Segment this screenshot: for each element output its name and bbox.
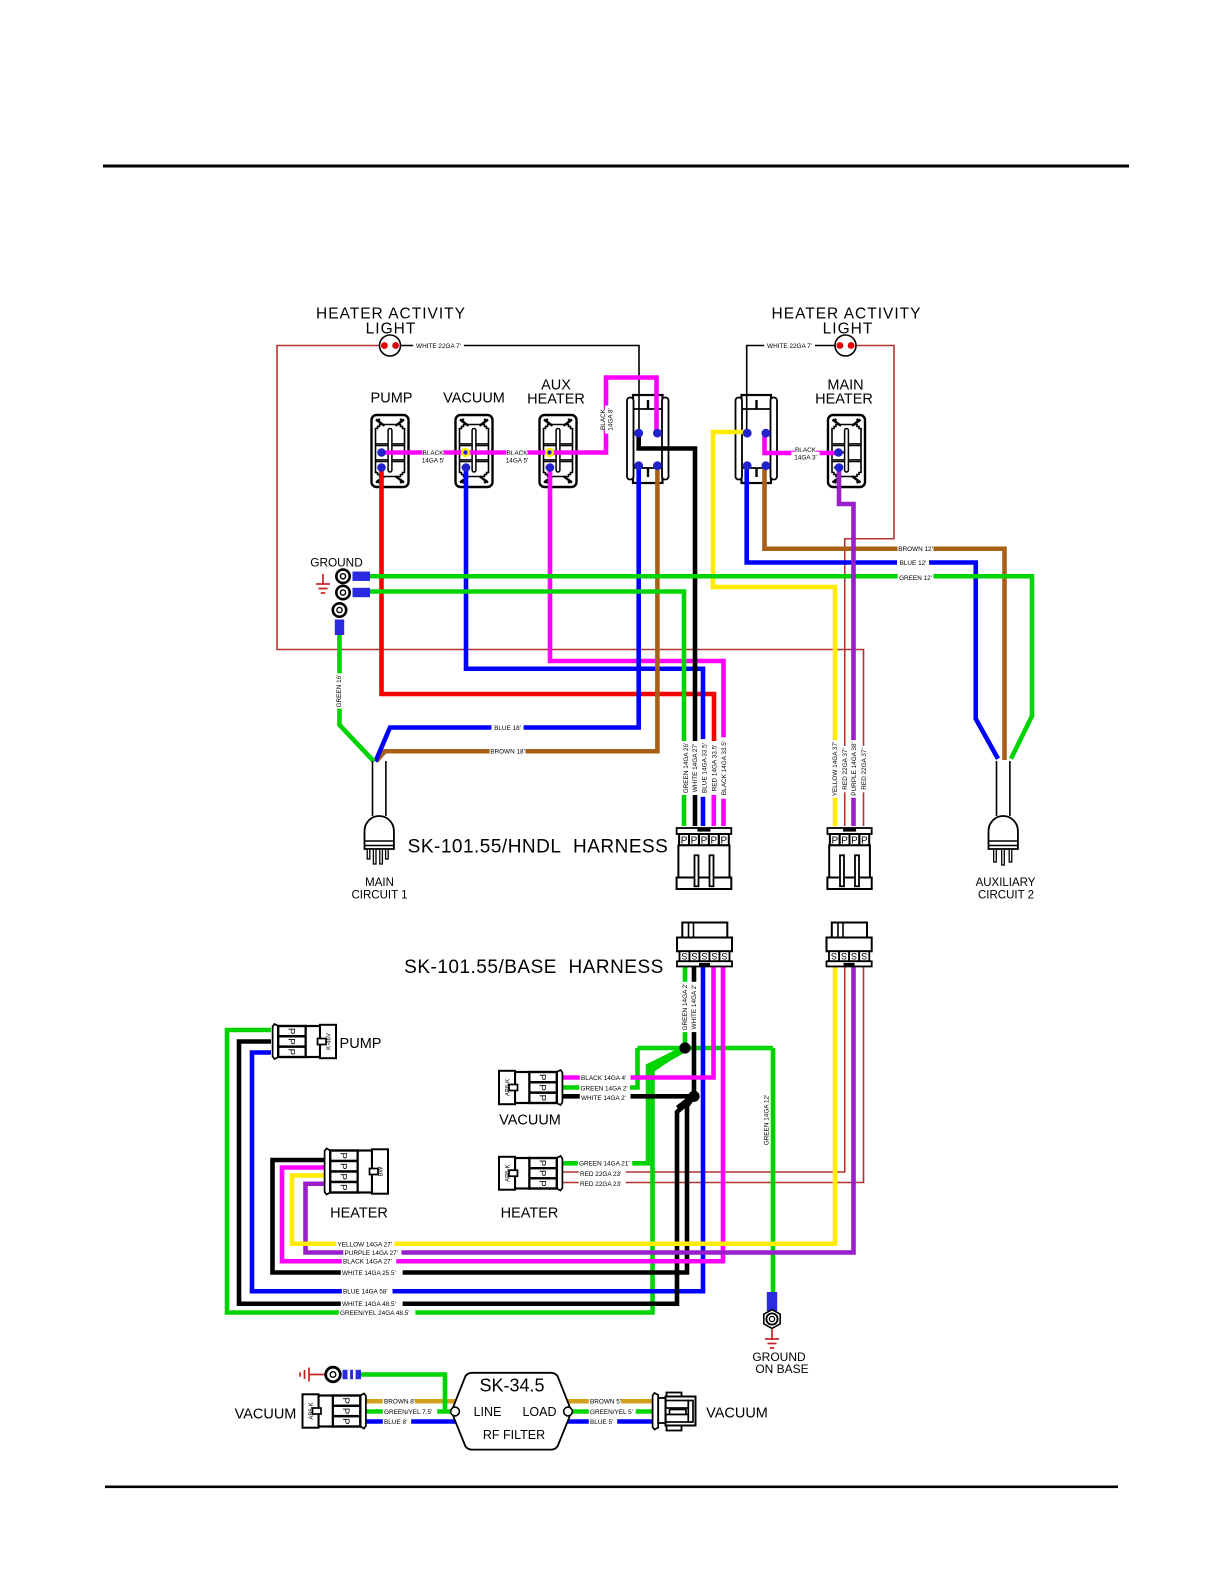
svg-text:P: P [286, 1049, 297, 1055]
label RED 22GA 23' second [579, 1179, 626, 1189]
svg-text:P: P [537, 1084, 548, 1090]
wire BLACK 14GA 33.5' AUX HEATER switch to P-connector 1 pin 5 [550, 468, 724, 827]
svg-text:P: P [537, 1095, 548, 1101]
wire BLUE 18' connector A to MAIN CIRCUIT 1 plug [376, 466, 639, 762]
rocker switch PUMP [372, 415, 409, 487]
wire PURPLE 14GA 38' MAIN HEATER switch to P-connector 2 pin 3 [839, 468, 854, 827]
svg-text:BROWN 18': BROWN 18' [490, 749, 525, 756]
svg-text:S: S [681, 951, 687, 961]
label RED 14GA 33.5' (rotated) [709, 741, 718, 795]
svg-text:GREEN 14GA 26': GREEN 14GA 26' [683, 743, 690, 794]
4-pin connector A (handle 4-pin) [627, 395, 669, 483]
svg-text:RED 22GA 23': RED 22GA 23' [580, 1171, 621, 1178]
RF filter SK-34.5 [453, 1373, 571, 1450]
svg-text:LOAD: LOAD [522, 1405, 556, 1419]
svg-text:GREEN 14GA 12': GREEN 14GA 12' [763, 1095, 770, 1146]
svg-text:P: P [338, 1184, 349, 1190]
svg-text:VACUUM: VACUUM [706, 1406, 768, 1422]
svg-text:LIGHT: LIGHT [366, 321, 417, 338]
wire RED 22GA 23' from S-connector 2 pin 2 to HEATER connector [561, 967, 845, 1173]
pins PUMP switch [377, 448, 386, 457]
label PURPLE 14GA 27' [343, 1247, 401, 1257]
svg-text:BROWN 12': BROWN 12' [898, 546, 933, 553]
rocker switch VACUUM [456, 415, 493, 487]
label GREEN 14GA 2' (rotated) [680, 982, 689, 1032]
bottom rule [105, 1486, 1118, 1489]
svg-text:ON BASE: ON BASE [755, 1362, 808, 1376]
svg-text:AB6-K: AB6-K [506, 1165, 512, 1182]
label BLUE 14GA 58' [342, 1286, 393, 1296]
label BLACK 14GA 27' [342, 1256, 396, 1266]
wire GREEN/YEL 5' RF filter to VACUUM connector [571, 1409, 653, 1414]
wire RED 22GA from right heater activity light to P-connector 2 pin 2 [845, 346, 894, 827]
svg-text:BLUE 12': BLUE 12' [900, 560, 927, 567]
wire GREEN/YEL 24GA 48.5' junction to PUMP connector [227, 1030, 685, 1313]
label BLACK 14GA 33.5' (rotated) [719, 737, 728, 798]
svg-text:GREEN 12': GREEN 12' [899, 575, 932, 582]
wire BROWN 5' RF filter to VACUUM connector [541, 1399, 653, 1404]
svg-text:PURPLE 14GA 27': PURPLE 14GA 27' [345, 1250, 398, 1257]
wire BLUE 14GA 58' S-connector 1 pin 3 to PUMP connector [252, 967, 703, 1292]
label GREEN 14GA 12' (rotated) [763, 1095, 770, 1146]
wire GREEN 14GA 26' ground ring 2 to P-connector 1 pin 1 [370, 592, 684, 827]
label BLACK 14GA 8' (rotated) [598, 408, 607, 430]
wire stub magenta into P-connector 1 pin 4 [711, 788, 716, 826]
label WHITE 14GA 48.5' [341, 1299, 403, 1309]
label YELLOW 14GA 37' (rotated) [830, 740, 839, 798]
svg-text:PUMP: PUMP [340, 1036, 382, 1052]
svg-text:14GA 8': 14GA 8' [607, 408, 614, 431]
svg-text:VACUUM: VACUUM [499, 1113, 561, 1129]
wire RED 22GA 23' from S-connector 2 pin 4 to HEATER connector [561, 967, 864, 1183]
wire BLUE 5' RF filter to VACUUM connector [562, 1419, 653, 1424]
svg-text:WHITE 22GA 7': WHITE 22GA 7' [767, 343, 812, 350]
label WHITE 14GA 2' [580, 1092, 631, 1102]
svg-text:BLUE 14GA 33.5': BLUE 14GA 33.5' [701, 743, 708, 793]
wire GREEN 14GA 2' stub from S-connector 1 pin 1 to junction [683, 967, 688, 1049]
wire WHITE 14GA 25.5' junction to HEATER connector [273, 1096, 695, 1272]
ring terminal ground 1 [336, 570, 370, 583]
svg-text:RF FILTER: RF FILTER [483, 1428, 545, 1442]
svg-text:WHITE 14GA 25.5': WHITE 14GA 25.5' [342, 1270, 396, 1277]
plug AUXILIARY CIRCUIT 2 [989, 761, 1018, 865]
top rule [103, 165, 1129, 168]
svg-text:BROWN 8': BROWN 8' [384, 1399, 415, 1406]
svg-text:WHITE 14GA 2': WHITE 14GA 2' [691, 985, 698, 1030]
wire RED 14GA 33.5' PUMP switch down to P-connector 1 pin 4 [382, 468, 715, 789]
label WHITE 22GA 7' left [413, 340, 464, 350]
svg-text:SK-34.5: SK-34.5 [479, 1376, 544, 1396]
indicator lamp left HEATER ACTIVITY LIGHT [380, 335, 401, 356]
svg-text:RED 22GA 37': RED 22GA 37' [842, 748, 849, 789]
svg-text:PURPLE 14GA 38': PURPLE 14GA 38' [851, 742, 858, 795]
svg-text:P: P [286, 1038, 297, 1044]
ring terminal bottom left [326, 1367, 361, 1382]
plug MAIN CIRCUIT 1 [365, 761, 394, 864]
wire WHITE 14GA 2' stub from S-connector 1 pin 2 to junction [692, 967, 697, 1097]
RF filter LOAD terminal hole [564, 1407, 573, 1416]
wire WHITE 14GA 48.5' junction to PUMP connector [239, 1042, 694, 1304]
svg-text:P: P [340, 1408, 351, 1414]
svg-text:P: P [537, 1160, 548, 1166]
wire BLUE 8' VACUUM connector to RF filter [365, 1419, 463, 1424]
svg-text:BLUE 14GA 58': BLUE 14GA 58' [343, 1289, 388, 1296]
label GREEN 14GA 21' [578, 1158, 632, 1168]
pins VACUUM switch [461, 448, 470, 457]
label BLUE 8' [383, 1416, 411, 1426]
svg-text:S: S [851, 951, 857, 961]
connector P-connector 1 (HNDL harness) [677, 828, 732, 889]
label GREEN/YEL 5' [589, 1406, 636, 1416]
wire green ground ring to RF filter LINE [361, 1375, 445, 1412]
svg-text:P: P [537, 1180, 548, 1186]
svg-text:RED 22GA 23': RED 22GA 23' [580, 1181, 621, 1188]
ground symbol GROUND ON BASE [765, 1329, 779, 1348]
label BLACK 14GA 5' first [423, 447, 445, 457]
wire GREEN 14GA 2' junction to VACUUM connector [561, 1048, 638, 1088]
rocker switch MAIN HEATER [828, 415, 865, 487]
wire YELLOW 14GA 27' S-connector 2 pin 1 to HEATER connector [292, 967, 835, 1244]
svg-text:YELLOW 14GA 37': YELLOW 14GA 37' [832, 742, 839, 797]
label BROWN 8' [383, 1396, 415, 1406]
svg-text:P: P [537, 1170, 548, 1176]
label WHITE 22GA 7' right [764, 340, 815, 350]
connector S-connector 1 (BASE harness) [677, 923, 732, 967]
label GREEN 14GA 26' (rotated) [681, 741, 690, 795]
svg-text:GREEN 16': GREEN 16' [336, 675, 343, 708]
svg-text:S: S [841, 951, 847, 961]
svg-text:PUMP: PUMP [371, 391, 413, 407]
wire GREEN 16' ground ring to MAIN CIRCUIT 1 plug [340, 633, 375, 762]
label GREEN 14GA 2' [579, 1083, 630, 1093]
wire PURPLE 14GA 27' S-connector 2 pin 3 to HEATER connector [306, 967, 854, 1253]
svg-text:WHITE 22GA 7': WHITE 22GA 7' [416, 343, 461, 350]
label BLUE 5' [589, 1416, 617, 1426]
pins connector B [743, 429, 752, 438]
junction green [679, 1042, 690, 1053]
label BLACK 14GA 4' [580, 1072, 631, 1082]
svg-text:MAIN: MAIN [365, 877, 394, 889]
svg-text:S: S [691, 951, 697, 961]
svg-text:HEATER: HEATER [330, 1206, 388, 1222]
svg-text:BLACK 14GA 4': BLACK 14GA 4' [581, 1075, 626, 1082]
connector P-connector 2 (HNDL harness) [827, 828, 871, 889]
connector HEATER (base left) [325, 1149, 388, 1195]
label PURPLE 14GA 38' (rotated) [849, 740, 858, 798]
svg-text:VACUUM: VACUUM [235, 1407, 297, 1423]
label GREEN/YEL 7.5' [383, 1406, 437, 1416]
ring terminal ground on base [764, 1292, 780, 1329]
label BLUE 14GA 33.5' (rotated) [699, 739, 708, 797]
ground symbol GROUND left [316, 574, 330, 593]
indicator lamp right HEATER ACTIVITY LIGHT [835, 335, 856, 356]
svg-text:WHITE 14GA 27': WHITE 14GA 27' [692, 744, 699, 792]
svg-text:GREEN/YEL 24GA 48.5': GREEN/YEL 24GA 48.5' [340, 1310, 410, 1317]
connector VACUUM (bottom left) [303, 1394, 366, 1429]
svg-text:BLUE 5': BLUE 5' [590, 1419, 613, 1426]
svg-text:SK-101.55/HNDL HARNESS: SK-101.55/HNDL HARNESS [408, 837, 669, 858]
ring terminal ground 3 (vertical) [333, 603, 346, 635]
svg-text:S: S [701, 951, 707, 961]
svg-text:GREEN/YEL 5': GREEN/YEL 5' [590, 1409, 633, 1416]
wire BLACK 14GA 4' S-connector 1 pin 4 to VACUUM connector [561, 967, 714, 1078]
svg-text:GREEN 14GA 2': GREEN 14GA 2' [581, 1085, 628, 1092]
wire WHITE 14GA 27' connector A pin 1 to P-connector 1 pin 2 [639, 433, 695, 826]
svg-text:BLACK 14GA 33.5': BLACK 14GA 33.5' [721, 741, 728, 795]
connector VACUUM (base mid) [499, 1070, 562, 1105]
svg-text:S: S [721, 951, 727, 961]
svg-text:CIRCUIT 2: CIRCUIT 2 [978, 890, 1034, 902]
wire BLACK 14GA 3' connector B to MAIN HEATER switch [765, 433, 839, 453]
svg-text:BROWN 5': BROWN 5' [590, 1399, 621, 1406]
svg-text:S: S [711, 951, 717, 961]
svg-text:GREEN 14GA 21': GREEN 14GA 21' [579, 1161, 630, 1168]
svg-text:WHITE 14GA 48.5': WHITE 14GA 48.5' [342, 1301, 396, 1308]
svg-text:AB6-K: AB6-K [506, 1079, 512, 1096]
svg-text:P: P [338, 1174, 349, 1180]
svg-text:AB6-K: AB6-K [309, 1402, 315, 1419]
pins AUX HEATER switch [545, 448, 554, 457]
label GREEN 12' [898, 572, 934, 582]
svg-text:BLUE 8': BLUE 8' [384, 1419, 407, 1426]
wire GREEN 12' ground ring 1 to AUXILIARY CIRCUIT 2 plug [370, 576, 1032, 759]
svg-text:SK-101.55/BASE HARNESS: SK-101.55/BASE HARNESS [404, 957, 664, 978]
svg-text:P: P [340, 1418, 351, 1424]
svg-text:HEATER: HEATER [527, 392, 585, 408]
svg-text:BLACK 14GA 27': BLACK 14GA 27' [343, 1259, 392, 1266]
svg-text:P: P [537, 1074, 548, 1080]
svg-text:14GA 5': 14GA 5' [422, 457, 445, 464]
svg-text:K-46V: K-46V [327, 1033, 333, 1050]
wire BLACK 14GA 27' S-connector 1 pin 5 to HEATER connector [282, 967, 723, 1262]
wire BLUE 12' connector B to AUXILIARY CIRCUIT 2 plug [747, 466, 998, 759]
wire BLUE 14GA 33.5' VACUUM switch to P-connector 1 pin 3 [466, 468, 703, 827]
4-pin connector B (handle 4-pin) [736, 395, 778, 483]
label RED 22GA 23' first [579, 1168, 626, 1178]
svg-text:S: S [831, 951, 837, 961]
wire WHITE 22GA 7' from left lamp to connector A pin 1 [400, 346, 639, 431]
label WHITE 14GA 27' (rotated) [690, 741, 699, 795]
svg-text:GREEN 14GA 2': GREEN 14GA 2' [682, 983, 689, 1030]
label BLUE 18' [492, 722, 524, 732]
svg-text:WHITE 14GA 2': WHITE 14GA 2' [581, 1095, 626, 1102]
label BROWN 12' [898, 544, 934, 554]
svg-text:LIGHT: LIGHT [823, 321, 874, 338]
svg-text:RED 22GA 37': RED 22GA 37' [861, 748, 868, 789]
connector HEATER (base right) [499, 1156, 562, 1191]
label BROWN 18' [490, 746, 526, 756]
svg-text:P: P [338, 1153, 349, 1159]
svg-text:YELLOW 14GA 27': YELLOW 14GA 27' [338, 1241, 393, 1248]
wire BROWN 12' connector B to AUXILIARY CIRCUIT 2 plug [765, 466, 1005, 760]
label YELLOW 14GA 27' [336, 1239, 394, 1249]
svg-text:S: S [861, 951, 867, 961]
svg-text:14GA 5': 14GA 5' [506, 457, 529, 464]
pins MAIN HEATER switch [834, 448, 843, 457]
connector PUMP (base) [273, 1024, 336, 1059]
label BLUE 12' [897, 557, 929, 567]
wire YELLOW 14GA 37' connector B pin 1 to P-connector 2 pin 1 [713, 432, 835, 826]
svg-text:BW: BW [379, 1166, 385, 1176]
label WHITE 14GA 2' (rotated) [689, 982, 698, 1032]
ground symbol bottom left [300, 1368, 325, 1382]
svg-text:HEATER: HEATER [815, 392, 873, 408]
svg-text:GROUND: GROUND [310, 556, 362, 570]
svg-text:HEATER: HEATER [501, 1206, 559, 1222]
wire BROWN 18' connector A to MAIN CIRCUIT 1 plug [376, 466, 657, 762]
wire GREEN/YEL 7.5' VACUUM connector to RF filter [365, 1409, 450, 1414]
svg-text:GREEN/YEL 7.5': GREEN/YEL 7.5' [384, 1409, 432, 1416]
RF filter LINE terminal hole [451, 1407, 460, 1416]
label GREEN 16' (rotated) [334, 673, 343, 708]
wire WHITE 14GA 2' VACUUM connector to junction [561, 1094, 694, 1099]
wire green junction wedge [650, 1044, 686, 1072]
svg-text:14GA 3': 14GA 3' [794, 454, 817, 461]
label GREEN/YEL 24GA 48.5' [339, 1307, 416, 1317]
label RED 22GA 37' (rotated) [859, 746, 868, 793]
svg-text:RED 14GA 33.5': RED 14GA 33.5' [711, 745, 718, 792]
label BLACK 14GA 3' [795, 444, 817, 454]
svg-text:P: P [340, 1398, 351, 1404]
ring terminal ground 2 [336, 586, 370, 599]
svg-text:CIRCUIT 1: CIRCUIT 1 [351, 890, 407, 902]
svg-text:AUXILIARY: AUXILIARY [976, 877, 1036, 889]
junction black [688, 1091, 699, 1102]
connector VACUUM (bottom right mating plug) [653, 1393, 696, 1431]
wire WHITE 22GA 7' from right lamp to connector B pin 1 [747, 346, 836, 431]
svg-text:LINE: LINE [474, 1405, 502, 1419]
rocker switch AUX HEATER [540, 415, 577, 487]
svg-text:P: P [338, 1163, 349, 1169]
svg-text:BLUE 18': BLUE 18' [494, 725, 521, 732]
wire RED 22GA from left heater activity light to P-connector 2 pin 4 [277, 346, 864, 827]
wire black junction wedge [676, 1092, 694, 1112]
wire BLACK 14GA switch bus PUMP-VACUUM-AUX to connector A [382, 378, 657, 453]
label BROWN 5' [589, 1396, 621, 1406]
connector S-connector 2 (BASE harness) [827, 923, 872, 967]
svg-text:P: P [286, 1028, 297, 1034]
wire GREEN 14GA 21' junction to HEATER connector [561, 1048, 685, 1163]
wire BROWN 8' VACUUM connector to RF filter [365, 1399, 463, 1404]
label WHITE 14GA 25.5' [341, 1267, 403, 1277]
pins connector A [634, 429, 643, 438]
wire GREEN 14GA 12' junction to ground on base [771, 1048, 776, 1294]
label BLACK 14GA 5' second [507, 447, 529, 457]
wire green junction horizontal [638, 1046, 774, 1051]
label RED 22GA 37' (rotated) [840, 746, 849, 793]
svg-text:VACUUM: VACUUM [443, 391, 505, 407]
